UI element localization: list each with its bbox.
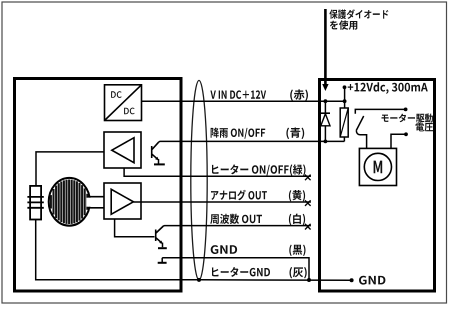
relay coil K1 (box with diagonal) — [340, 108, 348, 137]
transistor Q1 (rain output) — [152, 142, 159, 159]
label GND black — [211, 245, 237, 254]
wire motor right leg — [391, 134, 406, 148]
label rain ON/OFF — [211, 128, 266, 139]
sensor disc (hatched piezo disc) — [51, 180, 87, 225]
label frequency OUT — [210, 214, 262, 224]
label GND terminal — [359, 276, 385, 285]
terminal dot motor voltage top — [404, 108, 408, 112]
arrow pointing to protection diode — [324, 9, 327, 85]
wire +12V down to relay coil — [344, 88, 346, 109]
wire rain ON/OFF (blue) — [159, 140, 345, 143]
DC/DC label bottom — [124, 108, 135, 115]
label (black) — [289, 245, 305, 256]
wire heater GND (gray) — [199, 279, 352, 281]
ground symbol GND wire — [161, 258, 163, 263]
wire analog OUT (yellow) — [133, 201, 311, 203]
wire heater ON/OFF (green) — [124, 168, 311, 176]
label (white) — [289, 214, 305, 226]
motor M1 circle — [364, 153, 391, 180]
note protection diode line1 — [329, 9, 388, 19]
junction dot diode bottom — [324, 140, 328, 144]
wire GND (black) — [162, 258, 309, 280]
X mark heater ON/OFF not-connected — [305, 175, 311, 181]
label V IN DC+12V — [210, 90, 266, 99]
wire frequency OUT (white) — [163, 225, 311, 227]
transistor Q2 (frequency output) — [156, 226, 164, 243]
motor M letter — [374, 161, 383, 174]
sensor unit enclosure box — [15, 79, 182, 292]
ground bar Q1 emitter — [154, 163, 165, 165]
label heater GND — [212, 267, 270, 277]
label motor drive line2 — [416, 123, 433, 132]
piezo element X1 (rect with 3 bars) — [27, 186, 43, 220]
relay contact switch S1 — [355, 109, 405, 113]
label motor drive line1 — [382, 114, 433, 123]
X mark analog OUT not-connected — [305, 200, 311, 206]
label heater ON/OFF (green) — [212, 164, 306, 176]
wire U3 bottom to Q2 base — [115, 219, 155, 237]
note protection diode line2 — [330, 20, 357, 30]
op-amp U3 (analog amplifier, right-pointing) — [104, 183, 141, 219]
DC/DC label top — [111, 91, 122, 98]
wire disc to U3 inputs (2 stubs) — [87, 198, 96, 207]
op-amp U2 (rain comparator, left-pointing) — [104, 132, 141, 168]
label +12Vdc 300mA — [348, 82, 428, 94]
ground bar Q2 emitter — [158, 247, 167, 249]
junction cable shield — [197, 278, 201, 282]
cable sheath (ellipse) — [191, 80, 207, 280]
user controller enclosure box — [320, 80, 435, 292]
DC/DC converter U1 — [105, 85, 142, 121]
wire V IN DC+12V (red) — [142, 100, 345, 102]
label (yellow) — [289, 190, 305, 202]
wire piezo bottom to heater-GND rail — [36, 220, 199, 280]
label (red) — [290, 89, 308, 101]
junction dot +12V / V IN — [343, 99, 347, 103]
label (gray) — [290, 267, 307, 278]
label (blue) — [286, 128, 304, 140]
X mark frequency OUT not-connected — [305, 224, 311, 230]
junction dot diode top — [324, 99, 328, 103]
label analog OUT — [211, 190, 267, 201]
GND terminal dot — [350, 278, 354, 282]
terminal dot motor voltage bottom — [404, 132, 408, 136]
junction GND node — [307, 278, 311, 282]
protection diode D1 — [324, 101, 326, 113]
motor M1 box — [359, 148, 396, 185]
+12V terminal dot — [343, 85, 347, 89]
wire piezo to op-amp U2 input — [36, 152, 104, 186]
